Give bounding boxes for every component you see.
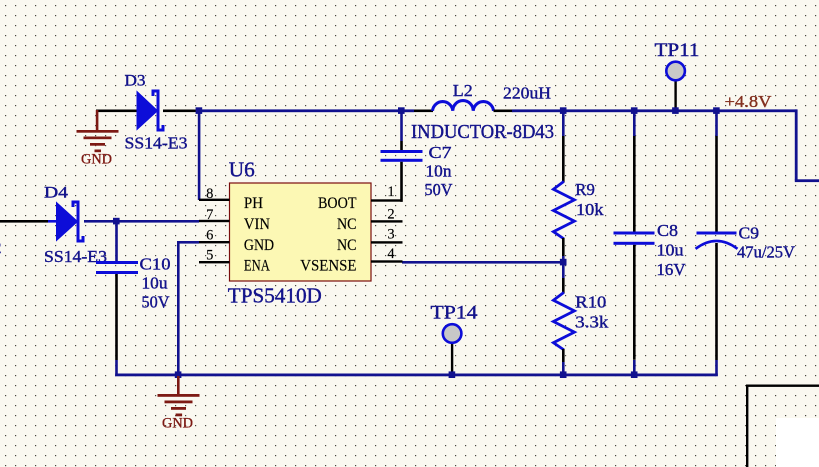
wire: feedback node down to R10 (562, 263, 565, 278)
junction: pin8 drop (196, 107, 203, 114)
svg-text:220uH: 220uH (503, 84, 551, 103)
wire: C10 down to ground rail (black lower) (115, 274, 118, 360)
svg-text:2: 2 (0, 238, 2, 257)
svg-text:10k: 10k (576, 200, 604, 219)
wire: +4.8V rail from L2 to right step (494, 110, 513, 113)
svg-text:47u/25V: 47u/25V (737, 243, 796, 262)
svg-text:R10: R10 (575, 293, 606, 312)
wire: R10 to ground rail (562, 349, 565, 362)
svg-text:3.3k: 3.3k (575, 313, 609, 332)
resistor R10 (553, 292, 574, 350)
pin 4 VSENSE (371, 260, 403, 262)
IC U6 TPS5410D body (230, 183, 372, 281)
svg-text:C8: C8 (657, 221, 678, 240)
wire: VSENSE to feedback node (402, 261, 562, 264)
junction: C7 tap (398, 107, 405, 114)
wire: input wire from left edge to D4 (black) (0, 220, 48, 223)
pin 1 BOOT (371, 199, 403, 201)
svg-text:NC: NC (337, 216, 357, 233)
junction: TP14 tap (449, 371, 456, 378)
pin 5 ENA (199, 261, 230, 263)
capacitor C10 (96, 261, 138, 274)
svg-text:GND: GND (244, 237, 274, 254)
junction: C9 tap (713, 107, 720, 114)
pin 3 NC (371, 241, 403, 243)
svg-text:SS14-E3: SS14-E3 (125, 134, 188, 153)
svg-text:TP14: TP14 (431, 303, 479, 324)
wire: C8 to ground rail (633, 245, 636, 360)
svg-text:4: 4 (387, 246, 395, 262)
wire: rail step down at right (795, 109, 798, 180)
pin 6 GND (199, 241, 230, 243)
junction: TP11 tap (672, 107, 679, 114)
wire: blue stub into D4 anode (48, 220, 57, 223)
junction: C8 bottom (631, 371, 638, 378)
ground GND (left, dark red) (77, 110, 119, 152)
svg-text:C10: C10 (140, 255, 171, 274)
svg-text:R9: R9 (575, 180, 595, 199)
capacitor C9 (polarized) (696, 232, 738, 249)
wire: C9 branch down (715, 110, 718, 136)
wire: down to R9 (navy then black pin) (562, 110, 565, 136)
svg-text:GND: GND (81, 152, 112, 168)
diode D3 (SS14-E3) (137, 91, 163, 130)
wire: rail exit right edge (795, 179, 819, 182)
wire: GND stub to D3 anode (black) (96, 110, 137, 113)
svg-text:L2: L2 (453, 81, 473, 100)
svg-text:D3: D3 (125, 73, 146, 90)
svg-text:INDUCTOR-8D43: INDUCTOR-8D43 (411, 122, 554, 143)
pin 8 PH (199, 199, 230, 201)
test point TP14 (443, 324, 462, 374)
svg-text:GND: GND (162, 416, 193, 432)
wire: D3 cathode segment (black) (163, 110, 196, 113)
wire: PH rail to L2 (196, 109, 414, 112)
inductor L2 (433, 101, 494, 111)
svg-text:VIN: VIN (244, 216, 270, 233)
test point TP11 (666, 62, 685, 110)
junction: GND stub (175, 371, 182, 378)
wire: drop to pin 8 (198, 110, 201, 200)
wire: C10 branch down (115, 221, 118, 262)
wire: C9 to ground rail (715, 243, 718, 360)
capacitor C8 (614, 232, 655, 245)
wire: ground drop vertical (177, 241, 180, 376)
pin 7 VIN (199, 220, 230, 222)
svg-text:NC: NC (337, 237, 357, 254)
wire: C8 branch down (633, 110, 636, 136)
svg-text:+4.8V: +4.8V (725, 92, 773, 111)
svg-text:C9: C9 (739, 224, 760, 243)
junction: R9 tap (560, 107, 567, 114)
wire: R9 to feedback node (black pin then navy) (562, 238, 565, 256)
wire: D4 cathode to pin7 of U6 (84, 220, 199, 223)
wire: ground rail bottom (115, 374, 718, 377)
junction at C10 tap (113, 218, 120, 225)
svg-text:50V: 50V (142, 293, 171, 312)
svg-text:2: 2 (387, 207, 394, 223)
capacitor C7 (381, 150, 423, 162)
diode D4 (SS14-E3) (57, 202, 84, 241)
pin 2 NC (371, 220, 403, 222)
svg-text:7: 7 (206, 207, 213, 223)
ground GND (bottom, dark red) (158, 376, 200, 416)
svg-text:10u: 10u (657, 241, 685, 260)
svg-text:C7: C7 (429, 143, 453, 162)
wire: C7 branch down (navy upper) (400, 110, 403, 141)
svg-text:5: 5 (206, 248, 213, 264)
svg-text:VSENSE: VSENSE (300, 258, 356, 275)
svg-text:TP11: TP11 (655, 40, 700, 61)
wire: C7 to BOOT pin1 (black) (400, 162, 403, 202)
adjacent sheet border (black) bottom right (746, 385, 819, 467)
wire: pin6 to ground drop (177, 241, 199, 244)
wire: C7 pin upper (black) (400, 141, 403, 151)
svg-text:U6: U6 (229, 158, 255, 182)
svg-text:BOOT: BOOT (318, 195, 357, 212)
svg-text:TPS5410D: TPS5410D (228, 284, 322, 308)
svg-text:PH: PH (244, 195, 263, 212)
junction: C8 tap top (631, 107, 638, 114)
junction: R10 bottom (560, 371, 567, 378)
svg-text:10u: 10u (142, 274, 169, 293)
svg-text:ENA: ENA (244, 258, 271, 275)
junction: feedback node (560, 259, 567, 266)
resistor R9 (553, 181, 574, 239)
svg-text:16V: 16V (657, 260, 687, 279)
svg-text:50V: 50V (425, 180, 454, 199)
svg-text:6: 6 (206, 228, 213, 244)
svg-text:10n: 10n (426, 162, 453, 181)
svg-text:3: 3 (387, 227, 394, 243)
svg-text:8: 8 (206, 186, 213, 202)
svg-text:D4: D4 (44, 185, 68, 202)
svg-text:1: 1 (387, 184, 394, 200)
